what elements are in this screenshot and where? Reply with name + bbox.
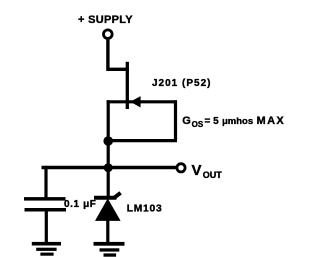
wire source left edge down to output node	[107, 100, 110, 196]
wire diode to ground	[106, 219, 109, 243]
wire gate/source horizontal	[107, 100, 177, 103]
capacitor C1 bottom plate	[25, 208, 67, 212]
wire capacitor branch	[44, 166, 47, 198]
wire supply to drain corner	[106, 40, 129, 71]
svg-text:G: G	[182, 115, 191, 127]
wire capacitor to ground	[45, 212, 48, 244]
ground under diode	[94, 242, 125, 246]
wire gate loop right edge	[174, 100, 177, 140]
svg-text:LM103: LM103	[127, 203, 163, 214]
svg-text:= 5: = 5	[205, 116, 220, 127]
svg-text:+ SUPPLY: + SUPPLY	[78, 14, 133, 26]
diode D1 LM103 body	[95, 198, 121, 221]
node junction dot source	[103, 136, 113, 146]
terminal +SUPPLY	[104, 30, 113, 39]
svg-text:V: V	[192, 162, 202, 179]
svg-text:0.1 μF: 0.1 μF	[64, 199, 97, 210]
ground under capacitor	[32, 242, 61, 246]
svg-text:OUT: OUT	[203, 170, 223, 180]
wire gate loop bottom edge	[107, 139, 177, 142]
svg-text:μmhos: μmhos	[222, 116, 253, 127]
terminal VOUT	[177, 164, 185, 172]
diode D1 LM103 cathode bar	[94, 193, 121, 198]
transistor J201 gate arrow	[130, 96, 140, 107]
wire output horizontal	[42, 166, 177, 169]
svg-text:OS: OS	[192, 120, 204, 129]
transistor J201 channel (drain lead)	[126, 62, 129, 109]
svg-text:J201 (P52): J201 (P52)	[152, 78, 211, 89]
svg-text:MAX: MAX	[257, 115, 286, 127]
capacitor C1 top plate	[24, 197, 66, 201]
node junction dot output	[104, 163, 113, 172]
